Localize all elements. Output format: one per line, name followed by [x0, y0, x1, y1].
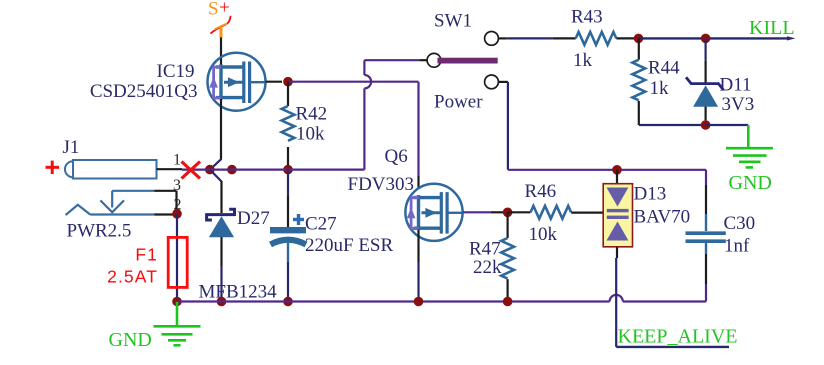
- wire ground rail: [177, 295, 706, 302]
- pin number 3: [173, 177, 181, 194]
- ground symbol (right): [726, 125, 773, 167]
- svg-text:KILL: KILL: [749, 17, 795, 39]
- node junction D27 bottom: [217, 297, 227, 307]
- svg-text:R44: R44: [648, 58, 680, 79]
- label 22k (R47): [473, 257, 502, 278]
- wire IC19 drain down: [210, 99, 222, 170]
- no-connect squiggle at S+: [210, 16, 230, 34]
- pin number 1: [173, 152, 181, 169]
- svg-text:10k: 10k: [529, 224, 558, 245]
- svg-text:R42: R42: [296, 104, 328, 125]
- svg-text:1: 1: [173, 152, 181, 169]
- capacitor C27 (polarized): [270, 170, 306, 302]
- resistor R47: [501, 212, 514, 301]
- label IC19: [157, 61, 195, 82]
- node junction rail R42/C27: [283, 165, 293, 175]
- J1 sleeve contact (pin 3): [100, 191, 154, 213]
- switch SW1: [427, 32, 498, 89]
- label PWR2.5: [67, 220, 132, 241]
- wire IC19 gate stub: [266, 81, 283, 83]
- label D27: [237, 208, 270, 229]
- ground symbol (left): [154, 302, 201, 345]
- wire D11 bottom to GND: [706, 124, 749, 126]
- svg-text:3V3: 3V3: [722, 94, 755, 115]
- svg-text:+: +: [219, 0, 230, 19]
- label R44: [648, 58, 680, 79]
- svg-text:FDV303: FDV303: [348, 174, 415, 195]
- pin number 2: [174, 197, 182, 214]
- wire supply rail: [205, 169, 364, 171]
- connector J1 label: [63, 137, 80, 158]
- node S+ label: [208, 0, 230, 20]
- svg-text:R46: R46: [525, 181, 557, 202]
- svg-text:3: 3: [173, 177, 181, 194]
- node junction Q6 gate/R46/R47: [503, 208, 513, 218]
- label GND (right): [729, 172, 772, 194]
- diode D27 (Schottky): [206, 209, 235, 301]
- svg-text:GND: GND: [729, 172, 772, 194]
- label 3V3: [722, 94, 755, 115]
- svg-text:D27: D27: [237, 208, 270, 229]
- label 10k (R46): [529, 224, 558, 245]
- label R47: [469, 239, 501, 260]
- svg-text:PWR2.5: PWR2.5: [67, 220, 132, 241]
- node junction rail pin1: [205, 165, 215, 175]
- svg-text:GND: GND: [109, 329, 152, 351]
- svg-text:S: S: [208, 0, 219, 20]
- wire Power switch throw down: [498, 82, 508, 170]
- net label KILL: [749, 17, 795, 39]
- svg-text:10k: 10k: [296, 124, 325, 145]
- wire D27 jog from rail: [210, 170, 221, 213]
- label 10k (R42): [296, 124, 325, 145]
- diode D13 (BAV70 dual): [603, 184, 632, 247]
- svg-text:22k: 22k: [473, 257, 502, 278]
- node junction D13 top: [612, 165, 622, 175]
- svg-text:1k: 1k: [650, 78, 670, 99]
- wire S+ to IC19 source: [220, 37, 222, 66]
- wire Power rail to C30: [508, 170, 706, 214]
- label GND (left): [109, 329, 152, 351]
- label R43: [571, 7, 603, 28]
- svg-text:C27: C27: [305, 213, 337, 234]
- label FDV303: [348, 174, 415, 195]
- wire R44 bottom to D11 bottom: [639, 124, 706, 126]
- label 220uF ESR: [305, 235, 393, 256]
- svg-text:MFB1234: MFB1234: [199, 282, 278, 303]
- svg-text:F1: F1: [135, 245, 158, 265]
- node junction D11 top: [701, 34, 711, 44]
- wire SW1 top throw to R43: [498, 37, 575, 39]
- label 2.5AT: [107, 267, 158, 287]
- node junction gate/R42: [283, 77, 293, 87]
- svg-text:1k: 1k: [573, 50, 593, 71]
- node junction pins 2/3: [172, 209, 182, 219]
- label R46: [525, 181, 557, 202]
- net label KEEP_ALIVE: [618, 326, 738, 348]
- node junction rail (dot 2): [227, 165, 237, 175]
- label CSD25401Q3: [90, 81, 198, 102]
- label D13: [634, 184, 667, 205]
- wire Q6 source to ground rail: [417, 230, 419, 302]
- wire KILL rail: [639, 36, 796, 40]
- svg-text:J1: J1: [63, 137, 80, 158]
- wire D13 top stub: [616, 170, 618, 187]
- transistor IC19 (P-MOSFET in circle): [208, 53, 266, 111]
- svg-text:BAV70: BAV70: [634, 207, 691, 228]
- no-ERC X marker: [182, 162, 201, 179]
- polarity + mark at J1: [46, 161, 60, 174]
- svg-text:Q6: Q6: [385, 146, 408, 167]
- svg-text:SW1: SW1: [434, 11, 472, 32]
- svg-text:IC19: IC19: [157, 61, 195, 82]
- svg-text:Power: Power: [434, 92, 483, 113]
- node junction R47 bottom: [503, 297, 513, 307]
- node junction R43/R44: [634, 34, 644, 44]
- wire rail to switch common (vertical with hop): [364, 60, 427, 169]
- wire Q6 gate to R46/R47: [463, 211, 504, 213]
- resistor R43: [576, 32, 634, 45]
- resistor R46: [508, 206, 607, 219]
- svg-text:D13: D13: [634, 184, 667, 205]
- label 1k (R43): [573, 50, 593, 71]
- svg-text:C30: C30: [724, 213, 756, 234]
- pin 3 wire: [154, 191, 176, 214]
- wire pin2 node to fuse: [176, 214, 178, 302]
- svg-text:CSD25401Q3: CSD25401Q3: [90, 81, 198, 102]
- fuse F1: [168, 237, 187, 287]
- svg-text:D11: D11: [720, 75, 752, 96]
- label R42: [296, 104, 328, 125]
- pin 2 wire: [154, 213, 174, 215]
- label Power: [434, 92, 483, 113]
- wire D13 bottom to KEEP_ALIVE: [616, 247, 729, 347]
- label D11: [720, 75, 752, 96]
- label MFB1234: [199, 282, 278, 303]
- node junction F1/GND: [172, 297, 182, 307]
- node junction D11 bottom: [701, 120, 711, 130]
- label F1: [135, 245, 158, 265]
- wire S+ stub (orange end): [220, 27, 223, 38]
- node junction C27 bottom: [283, 297, 293, 307]
- resistor R42: [282, 82, 295, 170]
- node junction Q6 source: [414, 297, 424, 307]
- label 1nf: [724, 236, 750, 257]
- transistor Q6 (N-MOSFET in circle): [405, 184, 463, 241]
- switch SW1 label: [434, 11, 472, 32]
- label BAV70: [634, 207, 691, 228]
- label 1k (R44): [650, 78, 670, 99]
- J1 sleeve line (pin 2) with chevron: [66, 205, 155, 215]
- resistor R44: [632, 38, 645, 125]
- pin 1 wire of J1: [157, 168, 206, 171]
- svg-text:2.5AT: 2.5AT: [107, 267, 158, 287]
- svg-text:1nf: 1nf: [724, 236, 750, 257]
- connector J1 barrel (tip pin): [65, 160, 157, 179]
- wire D11 top stub: [704, 38, 706, 83]
- label C27: [305, 213, 337, 234]
- svg-text:KEEP_ALIVE: KEEP_ALIVE: [618, 326, 738, 348]
- svg-text:R43: R43: [571, 7, 603, 28]
- label Q6: [385, 146, 408, 167]
- label C30: [724, 213, 756, 234]
- wire gate node to Q6 drain (purple): [288, 82, 419, 189]
- svg-text:220uF ESR: 220uF ESR: [305, 235, 393, 256]
- diode D11 (zener 3V3): [686, 77, 724, 120]
- capacitor C30: [686, 214, 726, 302]
